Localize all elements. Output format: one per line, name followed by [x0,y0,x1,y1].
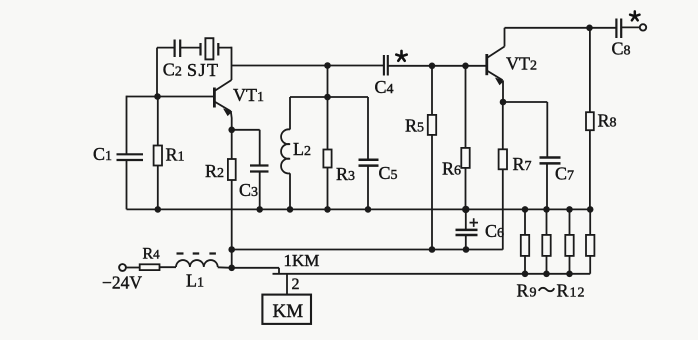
wire: loop right vertical to VT1 collector [231,47,233,80]
VT2 collector stroke [487,47,505,59]
node: R11 bottom [566,271,573,278]
capacitor C5 [359,160,379,166]
dashed shield line above L1 [177,252,216,254]
terminal: -24V input circle [119,264,126,271]
resistor R1 [157,97,159,210]
wire: R4 to L1 [160,266,177,268]
wire: main common rail [127,208,591,210]
wire: VT2 emitter vertical [502,81,504,103]
wire: C2/SJT loop top [157,47,232,49]
transistor VT2 base bar [485,54,488,75]
capacitor C3 [250,166,269,172]
wire: VT1 collector wire to C4 [232,65,384,67]
capacitor C8 [616,19,621,39]
plus sign of C6 [470,218,479,227]
star near C4 [396,51,406,61]
capacitor C6 electrolytic [465,209,467,249]
node: L2 bottom [287,206,294,213]
node: C5 bottom [365,206,372,213]
crystal SJT [201,43,219,56]
wire: -24V distribution line [232,249,503,251]
wire: C3 branch [232,130,260,210]
node: VT2 emitter node [500,99,507,106]
svg-text:R4: R4 [143,246,161,263]
wire: C4 to VT2 base [388,65,487,67]
wire: loop left vertical [156,48,158,97]
svg-text:2: 2 [292,276,300,293]
node: R10 bottom [543,271,550,278]
resistor R12 [589,209,591,273]
node: emitter/C3 tap [228,127,235,134]
node: base/C2 junction [154,93,161,100]
inductor L2 [289,97,291,130]
node: R10 top / C7 bottom [543,206,550,213]
wire: tap 2 down to KM coil [286,274,288,295]
resistor R3 [323,150,331,168]
VT1 emitter stroke with arrow [214,102,230,112]
wire: VT1 base wire [127,96,214,98]
svg-text:KM: KM [273,301,304,322]
node: R9 bottom [522,271,529,278]
wire: L1 to R2 node [218,266,232,269]
node: R6 tap [462,63,469,70]
resistor R2 [228,159,236,180]
wire: center vertical R3 branch [327,66,329,210]
resistor R4 [140,264,160,270]
resistor R5 [431,66,433,250]
KM coil box [262,295,311,324]
capacitor C1 [117,154,144,160]
svg-text:1KM: 1KM [284,251,320,270]
node: R2 on -24V line [228,246,235,253]
node: collector/tank vertical junction [324,62,331,69]
node: tank top junction [324,94,331,101]
wire: input to R4 [126,267,140,269]
node: R8 bottom [587,206,594,213]
resistor R6 [465,66,467,210]
wire: left rail C1 branch [126,96,128,210]
wire: VT1 emitter vertical [230,111,233,159]
wire: C5 branch [367,97,369,209]
capacitor C4 [384,55,388,76]
VT2 emitter stroke with arrow [487,71,503,81]
node: R2/L1 junction [228,265,235,272]
terminal: output circle [640,24,646,30]
node: R1 bottom [155,206,162,213]
node: C6 bottom [463,246,470,253]
wire: VT2 collector up [504,28,506,47]
svg-text:SJT: SJT [187,60,220,80]
wire: C8 to output terminal [621,26,639,28]
VT1 collector stroke [214,80,231,91]
node: R3 bottom [324,206,331,213]
wire: emitter to C7 [503,102,547,157]
transistor VT1 base bar [213,88,216,108]
node: R11 top [566,206,573,213]
node: R5 bottom [429,246,436,253]
wire: tank top [290,96,367,98]
capacitor C7 [540,158,561,164]
wire: C7 bottom [546,164,548,210]
resistor R11 [569,209,571,273]
wire: relay lower run to R9-R12 [273,273,591,275]
resistor R10 [546,209,548,273]
node: R8 top [586,25,593,32]
star near C8 [630,11,639,20]
inductor L1 [176,260,218,267]
resistor R8 [589,28,591,210]
node: R6 bottom / C6 top [462,206,469,213]
capacitor C2 [175,40,181,58]
relay contact 1KM [232,268,279,274]
wire: top output wire [505,27,617,29]
node: R5 tap [429,63,436,70]
node: C3 bottom [256,206,263,213]
resistor R7 [502,102,504,250]
svg-text:−24V: −24V [102,273,142,293]
resistor R9 [524,209,526,273]
node: R9 top [522,206,529,213]
